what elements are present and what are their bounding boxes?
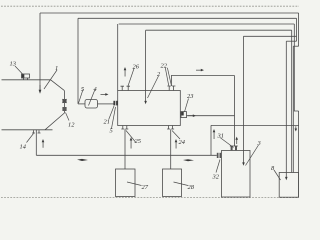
wire L3 top (119, 23, 295, 25)
wire vertical from L3 (294, 24, 298, 111)
valve 12 (62, 99, 66, 111)
wire vertical from L2 (296, 18, 298, 41)
leader 22 double (165, 68, 171, 86)
valve 13 (22, 74, 30, 80)
arrow head down at vessel 8 feed (285, 177, 288, 180)
valve 21 (113, 101, 118, 106)
wire pipe to box 28 (170, 129, 172, 169)
wire vertical from L2 to pump feed (77, 18, 79, 104)
flange joint 14 (32, 130, 41, 133)
wire pipe to box 27 (124, 129, 126, 169)
leader 23 (185, 99, 189, 112)
box 27 (116, 169, 136, 197)
svg-text:25: 25 (135, 138, 141, 145)
arrow up beside pipe 25 (130, 140, 133, 149)
svg-text:21: 21 (104, 119, 110, 126)
arrow head down at dip tube box 3 (242, 162, 245, 165)
wire dip tube from L5 into box 3 (243, 36, 245, 163)
svg-text:31: 31 (217, 133, 224, 140)
valve 23 (181, 112, 187, 118)
arrow up above nozzle 26 (124, 69, 127, 77)
arrow up beside x211 (213, 131, 216, 139)
leader 24 (172, 131, 180, 140)
wire vertical feed with arrow into vessel 8 (285, 41, 287, 177)
pump 4 rounded box (85, 100, 98, 109)
vessel 8 (279, 173, 298, 198)
nozzle 24 on reactor bottom (167, 126, 174, 130)
wire L2 top (78, 17, 297, 19)
wire right jog y41 (286, 40, 296, 42)
leader 31 (220, 138, 234, 148)
wire right border vertical upper (298, 13, 300, 46)
leader 5a (79, 90, 84, 104)
wire L1 top (40, 12, 299, 14)
wire vertical from L3 to reactor (117, 24, 119, 91)
svg-text:2: 2 (157, 71, 161, 78)
wire dip tube from L4 into reactor 2 (145, 30, 147, 101)
leader 28 (174, 182, 189, 186)
arrowheads and flow arrows (39, 67, 298, 180)
svg-text:4: 4 (94, 86, 98, 93)
wire below valve 12 (45, 111, 64, 130)
leader 26 (128, 69, 134, 87)
arrow up beside tee 14 (42, 141, 45, 148)
leader lines (15, 66, 281, 186)
leader 21 (109, 106, 114, 119)
box 28 (163, 169, 182, 197)
wire vertical x211 (210, 125, 212, 155)
valve 32 (217, 153, 221, 158)
leader 3 (246, 145, 259, 166)
box 3 (222, 151, 251, 198)
leader 1 (44, 70, 57, 89)
wire outlet line from valve 23 (187, 115, 235, 117)
wire long horizontal y155 (36, 154, 217, 156)
bottom dashed border (1, 197, 299, 199)
svg-text:13: 13 (10, 61, 16, 68)
leader 27 (127, 182, 142, 186)
wire vertical from L4 (291, 30, 293, 172)
leader 32 (216, 160, 220, 173)
svg-text:32: 32 (212, 174, 220, 181)
svg-text:28: 28 (188, 184, 195, 191)
svg-text:14: 14 (20, 144, 27, 151)
arrow down at feed x40 (39, 90, 42, 94)
wire L4 top (146, 29, 292, 31)
wire vertical at valve 12 (63, 91, 65, 99)
svg-text:5: 5 (81, 86, 84, 93)
svg-text:12: 12 (68, 122, 75, 129)
svg-text:26: 26 (133, 64, 140, 71)
svg-text:5: 5 (110, 128, 113, 135)
arrow head down at dip tube reactor 2 (144, 101, 147, 104)
wire pump feed line (78, 103, 85, 105)
arrow right between pump and valve 21 (101, 93, 107, 96)
arrow left on y160 line A (77, 159, 88, 161)
wire feed line with valve 13 (2, 79, 51, 81)
arrow right after valve 23 (188, 114, 194, 117)
svg-text:23: 23 (187, 93, 193, 100)
wire bottom-left line (2, 129, 53, 131)
arrow left on y160 line B (183, 159, 194, 161)
leader 4 (89, 90, 96, 106)
arrow down on right margin (295, 126, 298, 130)
nozzle 25 on reactor bottom (121, 126, 128, 130)
wire vertical to valve 31 (234, 76, 236, 147)
wire riser from nozzle 22 (171, 76, 234, 87)
leader 13 (15, 66, 23, 75)
valve 31 (230, 146, 238, 150)
wire horizontal y125 (211, 124, 299, 126)
svg-text:24: 24 (179, 139, 186, 146)
wire right border vertical lower (298, 111, 300, 197)
wire L5 top (244, 35, 297, 37)
wire right jog y46 (293, 45, 298, 47)
leader 14 (27, 134, 34, 143)
wire slant from feed to valve 12 (51, 80, 65, 91)
svg-text:27: 27 (142, 184, 149, 191)
wire vertical from comp 14 tee (35, 130, 37, 156)
leader 25 (126, 131, 136, 143)
wire pump outlet to valve 21 (98, 103, 114, 105)
wire vertical into vessel 8 (292, 46, 294, 172)
arrow up beside valve 31 riser (235, 139, 238, 145)
reactor 2 box (118, 91, 181, 126)
leader 2 (148, 76, 159, 98)
wire vertical feed from L1 (39, 13, 41, 91)
svg-text:3: 3 (257, 140, 261, 147)
svg-text:22: 22 (161, 63, 168, 70)
svg-text:1: 1 (55, 65, 58, 72)
leader 12 (66, 113, 70, 121)
leader 5b (112, 107, 116, 129)
nozzle 26 on reactor top (121, 86, 131, 90)
nozzle 22 on reactor top (167, 86, 175, 91)
arrow up beside pipe 24 (175, 141, 178, 149)
arrow right above riser line (196, 69, 202, 72)
top dashed border (1, 5, 299, 7)
leader 8 (274, 170, 281, 180)
